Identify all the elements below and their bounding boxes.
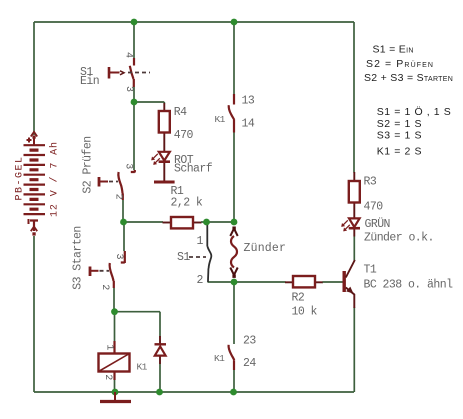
- svg-text:1: 1: [103, 344, 114, 350]
- svg-text:S2 Prüfen: S2 Prüfen: [82, 136, 95, 193]
- svg-text:4: 4: [123, 52, 134, 58]
- svg-text:R3: R3: [364, 176, 377, 189]
- svg-text:2: 2: [99, 284, 110, 290]
- svg-text:2: 2: [102, 374, 113, 380]
- svg-text:Zünder o.k.: Zünder o.k.: [364, 232, 434, 245]
- svg-text:S1 = Ein: S1 = Ein: [373, 44, 414, 56]
- svg-text:10 k: 10 k: [292, 306, 318, 319]
- svg-text:3: 3: [113, 253, 124, 259]
- svg-text:R2: R2: [292, 292, 305, 305]
- svg-text:K1: K1: [137, 362, 148, 373]
- svg-text:13: 13: [242, 94, 255, 107]
- svg-text:24: 24: [243, 357, 256, 370]
- svg-text:S2 = Prüfen: S2 = Prüfen: [366, 58, 434, 70]
- svg-text:1: 1: [197, 235, 204, 248]
- svg-text:470: 470: [174, 129, 194, 142]
- svg-text:Zünder: Zünder: [244, 242, 287, 255]
- svg-text:23: 23: [243, 335, 256, 348]
- svg-text:14: 14: [242, 117, 255, 130]
- svg-text:S3 Starten: S3 Starten: [72, 226, 85, 290]
- svg-text:T1: T1: [364, 264, 377, 277]
- svg-text:470: 470: [364, 200, 384, 213]
- svg-text:K1: K1: [214, 353, 225, 364]
- svg-text:2,2 k: 2,2 k: [171, 197, 203, 210]
- svg-text:GRÜN: GRÜN: [365, 218, 390, 231]
- svg-text:K1 = 2 S: K1 = 2 S: [377, 145, 422, 157]
- svg-text:K1: K1: [215, 114, 226, 125]
- svg-text:S3 = 1 S: S3 = 1 S: [377, 130, 422, 142]
- svg-text:S2 = 1 S: S2 = 1 S: [377, 118, 422, 130]
- svg-text:12 V / 7 Ah: 12 V / 7 Ah: [49, 141, 61, 217]
- svg-text:2: 2: [113, 194, 124, 200]
- svg-text:2: 2: [197, 274, 204, 287]
- svg-text:R4: R4: [174, 106, 187, 119]
- svg-text:S1 = 1 Ö , 1 S: S1 = 1 Ö , 1 S: [377, 106, 452, 118]
- svg-text:S1: S1: [177, 251, 190, 264]
- svg-text:3: 3: [122, 163, 133, 169]
- svg-text:S2 + S3 = Starten: S2 + S3 = Starten: [364, 72, 453, 84]
- svg-text:Scharf: Scharf: [174, 163, 213, 176]
- svg-text:BC 238 o. ähnl: BC 238 o. ähnl: [364, 279, 454, 292]
- svg-text:PB-GEL: PB-GEL: [15, 155, 26, 200]
- svg-text:3: 3: [123, 86, 134, 92]
- svg-text:Ein: Ein: [80, 75, 99, 88]
